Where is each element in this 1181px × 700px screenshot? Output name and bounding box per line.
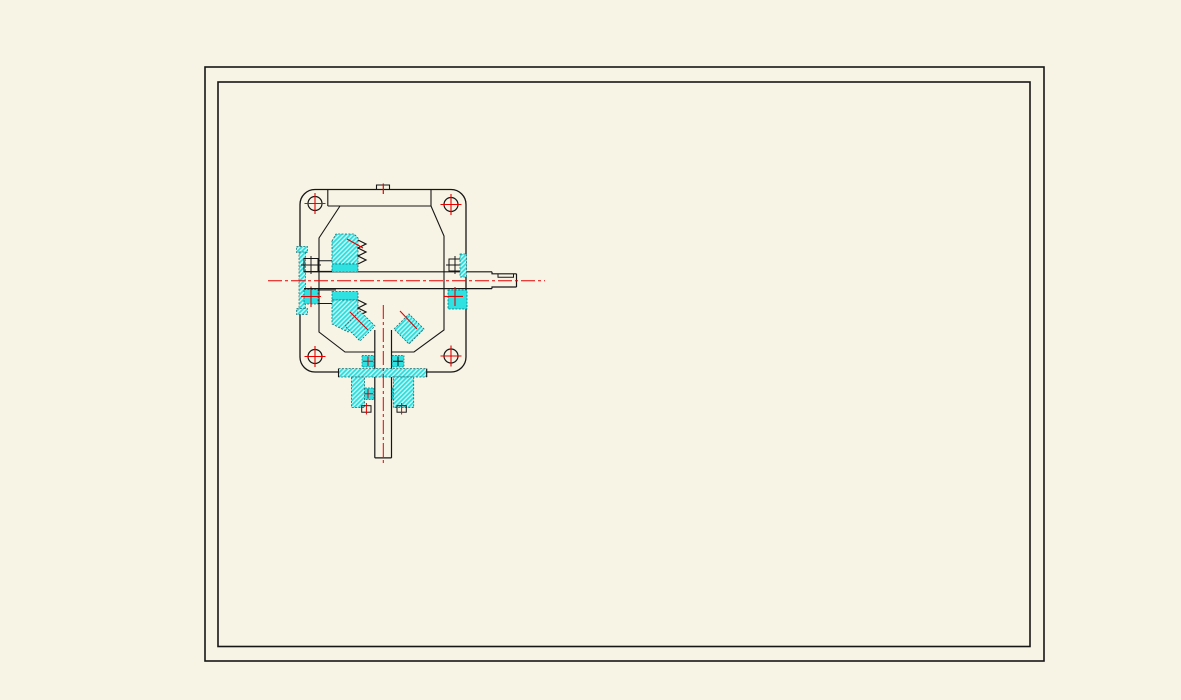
corner bolt hole (451,356)	[444, 349, 458, 363]
lower gear (cyan hatched)	[332, 292, 358, 301]
vertical input shaft	[375, 330, 392, 458]
bottom bolts	[362, 406, 407, 413]
left bearing end cover (cyan)	[297, 247, 308, 253]
left view: inner cavity octagon	[319, 190, 444, 352]
red horizontal centerline	[268, 280, 545, 282]
upper-right cyan strip	[460, 254, 467, 277]
bottom bearing housing plate (cyan)	[339, 369, 427, 377]
corner bolt hole (315,356.5)	[308, 350, 322, 364]
lower-left bearing (cyan with red cross)	[304, 290, 318, 305]
input bevel pinion upper (cyan hatched)	[332, 234, 358, 264]
horizontal output shaft	[304, 272, 517, 289]
lower gear teeth	[358, 300, 366, 323]
left view: gearbox housing section	[300, 190, 466, 373]
red vertical centerline	[382, 305, 384, 464]
left bevel gear	[345, 311, 375, 341]
corner bolt hole (315,203.5)	[308, 197, 322, 211]
corner bolt hole (451,204.5)	[444, 198, 458, 212]
sheet outer border	[205, 67, 1044, 661]
bottom housing left block	[352, 377, 365, 408]
upper gear teeth	[358, 240, 366, 264]
upper-right bolt box	[446, 256, 464, 274]
red tick top	[382, 184, 384, 195]
left view: lid boss	[377, 185, 390, 190]
bottom housing right block	[393, 377, 413, 408]
right bevel gear	[394, 314, 424, 344]
lower-right bearing (cyan, red cross)	[448, 290, 467, 309]
sheet inner border	[218, 82, 1030, 647]
upper-left bolt box	[301, 256, 336, 274]
vertical shaft bearings	[362, 356, 374, 368]
